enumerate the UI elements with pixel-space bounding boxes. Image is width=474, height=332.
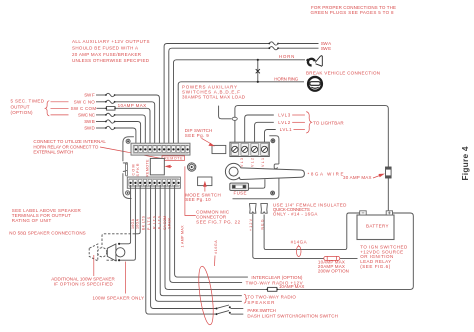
wire SW F: [96, 93, 159, 143]
svg-text:INTERCLEAR (OPTION): INTERCLEAR (OPTION): [251, 275, 303, 280]
terminal strip bottom: [127, 177, 180, 188]
wire speaker negative: [119, 185, 135, 260]
speaker SP1: [107, 243, 125, 262]
lightbar screw terminal block: [230, 142, 269, 156]
svg-text:SPEAKER: SPEAKER: [247, 300, 275, 305]
svg-text:EXTERNAL SWITCH: EXTERNAL SWITCH: [33, 150, 73, 155]
svg-text:30 AMP MAX: 30 AMP MAX: [343, 175, 372, 180]
wire LVL3: [245, 115, 274, 142]
note: additional 100w speaker: [51, 277, 115, 287]
unit mounting screw top-left: [126, 139, 130, 143]
brace radio speaker: [244, 294, 247, 303]
svg-text:BATTERY: BATTERY: [366, 224, 389, 229]
svg-text:100W SPEAKER ONLY: 100W SPEAKER ONLY: [93, 295, 145, 300]
horn icon: [307, 56, 323, 67]
fuse 10AMP on SW C COM: [97, 107, 151, 144]
svg-text:HORN RING: HORN RING: [274, 76, 298, 81]
wire remote: radio speaker 1: [160, 185, 242, 296]
wire mic to fuse: [249, 179, 265, 188]
svg-text:BREAK VEHICLE CONNECTION: BREAK VEHICLE CONNECTION: [306, 70, 380, 75]
brace: 5 sec timed group: [45, 101, 49, 116]
leader + ellipse marker #14GA: [296, 245, 301, 257]
svg-text:10AMP MAX: 10AMP MAX: [279, 284, 305, 289]
svg-text:BK LTS: BK LTS: [141, 215, 145, 230]
svg-text:REMOTE: REMOTE: [145, 159, 149, 177]
svg-text:SPKR: SPKR: [168, 218, 172, 229]
svg-text:B LTS: B LTS: [157, 215, 161, 229]
note: connect to utilize internal horn relay: [33, 139, 106, 154]
leader to additional speaker note: [93, 255, 95, 276]
wire HORN RING: [178, 82, 304, 143]
label TO TWO-WAY RADIO / SPEAKER: [247, 295, 296, 306]
switch dash light: [216, 311, 244, 316]
note: to ign switched source: [360, 245, 408, 269]
wire remote: park switch: [151, 185, 216, 309]
battery: [357, 211, 394, 240]
svg-text:DASH LIGHT SWITCH/IGNITION SWI: DASH LIGHT SWITCH/IGNITION SWITCH: [247, 314, 338, 319]
unit mounting screw bottom-right: [271, 191, 275, 195]
quick connect NEG: [261, 204, 268, 214]
mode switch: [198, 177, 212, 186]
note: all auxiliary outputs fused: [72, 39, 150, 63]
svg-text:SW C NO: SW C NO: [74, 99, 95, 104]
label LVL3 + dash: [278, 113, 305, 118]
leader dashes to SW C rows: [51, 101, 69, 103]
svg-text:(OPTION): (OPTION): [11, 110, 34, 115]
wire battery plus to ignition feed: [169, 213, 413, 289]
svg-text:1 AMP MAX: 1 AMP MAX: [181, 225, 185, 248]
svg-text:SEE Pg. 10: SEE Pg. 10: [185, 197, 211, 202]
wire SW D: [96, 126, 136, 143]
label DIP SWITCH SEE Pg. 9: [185, 128, 213, 138]
svg-text:UNLESS OTHERWISE SPECIFIED: UNLESS OTHERWISE SPECIFIED: [72, 58, 150, 63]
svg-text:*8GA WIRE: *8GA WIRE: [308, 171, 344, 176]
svg-text:(SEE FIG.6): (SEE FIG.6): [360, 264, 391, 269]
dashed wires optional speaker: [102, 234, 135, 260]
svg-text:SPKR: SPKR: [136, 163, 140, 176]
svg-text:+12V: +12V: [249, 218, 253, 231]
quick connect +12V: [250, 204, 358, 259]
wire SW A: [164, 42, 318, 143]
svg-text:16GA: 16GA: [136, 218, 140, 229]
leader arrow to mode switch: [203, 181, 207, 192]
svg-text:SW D: SW D: [84, 126, 95, 131]
wire remote: two-way radio: [170, 185, 242, 282]
wire speaker positive: [119, 185, 131, 244]
wire horn to horn-ring vertical: [257, 59, 259, 83]
wire remote: dash light switch: [146, 185, 216, 314]
leader to 100w speaker note: [124, 262, 126, 294]
fuse 10amp on ignition wire (red): [324, 256, 340, 260]
svg-text:TO LIGHTBAR: TO LIGHTBAR: [313, 120, 344, 125]
microphone: [225, 163, 304, 179]
wire to optional speaker: [135, 185, 140, 234]
wire HORN: [174, 60, 306, 143]
svg-text:SEE FIG.7 PG. 22: SEE FIG.7 PG. 22: [196, 219, 240, 224]
wire LVL1: [265, 130, 276, 143]
wire fuse to battery: [387, 178, 389, 211]
svg-text:SW C COM: SW C COM: [71, 106, 97, 111]
svg-text:SW E: SW E: [321, 46, 332, 51]
wire LVL2: [255, 122, 274, 142]
svg-text:SWC NC: SWC NC: [78, 112, 96, 117]
svg-text:20 AMP MAX FUSE/BREAKER: 20 AMP MAX FUSE/BREAKER: [72, 52, 142, 57]
note: use 1/4 female insulated quick-connects: [273, 203, 347, 217]
svg-text:IF OPTION IS SPECIFIED: IF OPTION IS SPECIFIED: [54, 282, 114, 287]
speaker fuse holder: [230, 183, 249, 190]
terminals top strip: [134, 146, 189, 153]
wire gauge labels (vertical red): [131, 215, 172, 230]
svg-text:LVL3: LVL3: [278, 113, 290, 118]
svg-text:TO TWO-WAY RADIO: TO TWO-WAY RADIO: [247, 295, 296, 300]
unit mounting screw top-right: [271, 139, 275, 143]
svg-text:REMOTE: REMOTE: [164, 157, 183, 161]
junction grommet ellipse: [232, 117, 237, 120]
svg-text:SHOULD BE FUSED WITH A: SHOULD BE FUSED WITH A: [72, 46, 138, 51]
note: 5 sec timed output option: [11, 99, 45, 116]
label MODE SWITCH SEE Pg. 10: [185, 192, 221, 202]
note: green plugs pages 5 to 8: [311, 5, 397, 15]
note: see label above speaker terminals: [12, 208, 82, 223]
break X mark: [256, 69, 260, 73]
svg-text:30AMPS TOTAL MAX LOAD: 30AMPS TOTAL MAX LOAD: [182, 95, 246, 100]
dip switch: [212, 145, 226, 153]
label COMMON MIC CONNECTOR SEE FIG.7 PG. 22: [196, 210, 240, 225]
svg-text:Figure 4: Figure 4: [460, 146, 470, 180]
label LVL1 + dash: [280, 127, 305, 132]
wire SW E: [169, 47, 319, 144]
fuse 10amp radio: [266, 287, 278, 291]
label COM SPKR (vertical): [132, 163, 141, 176]
svg-text:10AMP MAX: 10AMP MAX: [118, 103, 147, 108]
svg-text:200W OPTION: 200W OPTION: [318, 268, 349, 273]
hex standoff center: [188, 163, 196, 171]
leader arrow into mic connector: [164, 165, 172, 168]
svg-text:GREEN PLUGS SEE PAGES 5 TO 8: GREEN PLUGS SEE PAGES 5 TO 8: [311, 10, 394, 15]
svg-text:NEG: NEG: [261, 219, 265, 229]
speaker SP2 optional (dashed): [89, 244, 107, 261]
labels LVL3 LVL2 LVL1 (vertical under terminals): [240, 158, 265, 170]
svg-text:CA COM: CA COM: [163, 216, 167, 230]
fuse 30 amp: [386, 167, 392, 178]
svg-text:SW F: SW F: [84, 92, 95, 97]
svg-text:16GA: 16GA: [131, 218, 135, 229]
unit chassis outline right: [233, 136, 279, 199]
svg-text:LVL1: LVL1: [280, 127, 292, 132]
note: powers auxiliary switches: [182, 85, 246, 100]
switch park: [216, 305, 244, 310]
svg-text:LVL2: LVL2: [278, 120, 290, 125]
svg-text:SW B: SW B: [84, 119, 95, 124]
leader arrow to dip switch: [202, 138, 215, 146]
svg-text:ONLY - #14 - 16GA: ONLY - #14 - 16GA: [273, 211, 318, 216]
wire remote: interclear: [175, 185, 248, 277]
mic connector box: [150, 158, 164, 175]
leader common mic connector: [185, 166, 196, 215]
svg-text:FUSE: FUSE: [234, 191, 247, 196]
main battery feed wire: [235, 106, 388, 167]
svg-text:HORN: HORN: [279, 54, 295, 59]
svg-text:RATING OF UNIT: RATING OF UNIT: [12, 218, 52, 223]
svg-text:NO 58Ω SPEAKER CONNECTIONS: NO 58Ω SPEAKER CONNECTIONS: [9, 231, 86, 236]
leader: connect text to remote label: [100, 147, 162, 159]
svg-text:#14GA: #14GA: [291, 240, 307, 245]
wire remote: radio +12 fused (joins battery feed): [165, 185, 170, 289]
wire SWC NC: [96, 113, 145, 143]
wire SW C NO: [96, 100, 155, 143]
wire SW B: [96, 120, 141, 143]
svg-text:COM: COM: [132, 165, 136, 176]
svg-text:#16GA: #16GA: [214, 240, 218, 254]
terminal strip top (remote): [131, 143, 190, 155]
label LVL2 + dash: [278, 120, 305, 125]
leader arrow to 30A fuse: [373, 174, 385, 178]
label 10AMP 20AMP 200W: [318, 259, 349, 273]
svg-text:P LTS: P LTS: [147, 216, 151, 230]
svg-text:PARK SWITCH: PARK SWITCH: [247, 308, 276, 313]
unit mounting screw bottom-left: [126, 191, 130, 195]
steering wheel icon: [308, 77, 322, 91]
label REMOTE (red box): [162, 156, 185, 161]
wire remote: radio speaker 2: [155, 185, 241, 301]
brace to lightbar: [306, 112, 311, 133]
svg-text:ALL AUXILIARY +12V OUTPUTS: ALL AUXILIARY +12V OUTPUTS: [72, 39, 150, 44]
svg-text:SEE Pg. 9: SEE Pg. 9: [185, 133, 209, 138]
svg-text:5 SEC. TIMED: 5 SEC. TIMED: [11, 99, 45, 104]
svg-text:OUTPUT: OUTPUT: [11, 104, 30, 109]
leader stub to junction: [219, 106, 232, 119]
unit chassis outline left: [123, 137, 134, 199]
leader + ellipse marker #16GA bundle: [196, 256, 216, 326]
wire battery neg: [264, 213, 360, 250]
svg-text:R LTS: R LTS: [153, 215, 157, 229]
